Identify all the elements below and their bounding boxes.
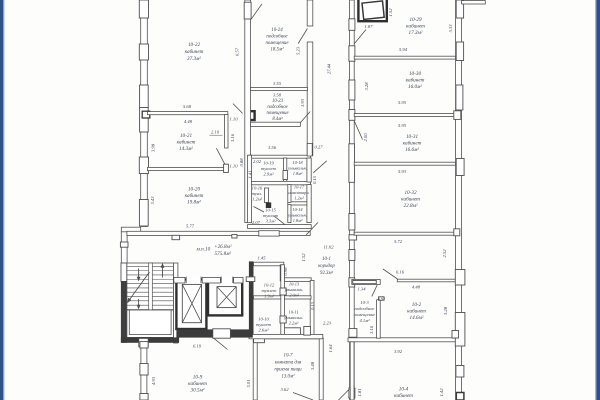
svg-text:кабинет: кабинет (185, 192, 204, 199)
wall 10-22 east (245, 0, 251, 223)
svg-text:кабинет: кабинет (406, 23, 425, 30)
wall stair east (174, 263, 178, 343)
svg-text:3.48: 3.48 (310, 361, 315, 370)
dim 5.94 (399, 47, 408, 52)
room label 10-13 (284, 282, 304, 298)
svg-text:27.44: 27.44 (327, 63, 332, 74)
svg-text:4.48: 4.48 (184, 119, 193, 124)
dim 1.64 (328, 344, 333, 353)
door gap 10-31 (349, 110, 355, 121)
door gap corridor east 2 (349, 250, 355, 261)
wall divider end cap vertical (225, 115, 228, 149)
svg-text:10-1: 10-1 (322, 257, 331, 262)
wall 10-24 east lower (307, 42, 313, 156)
svg-text:2.0м²: 2.0м² (289, 293, 299, 298)
door gap 10-4 (349, 388, 355, 398)
room below stairs (127, 310, 174, 337)
svg-text:10-23: 10-23 (272, 99, 284, 104)
svg-text:30.5м²: 30.5м² (191, 388, 205, 394)
svg-text:1.10: 1.10 (229, 164, 238, 169)
shaft wall cap mid (202, 277, 220, 283)
svg-text:0.15: 0.15 (312, 175, 317, 184)
svg-text:умывальн.: умывальн. (283, 315, 303, 320)
door gap 10-32 (349, 214, 355, 231)
window right 3 (456, 85, 463, 110)
dim 0.27 (314, 145, 323, 150)
room label 10-11 (283, 310, 303, 326)
niche corridor east (349, 144, 355, 183)
cap corridor east at 10-32 wall (349, 235, 357, 240)
dim 3.48 (310, 361, 315, 370)
wall divider 10-30/10-31 (354, 114, 456, 117)
window left lower 1 (140, 342, 148, 348)
dim 5.23 (296, 46, 301, 55)
svg-text:10-15: 10-15 (265, 208, 276, 213)
svg-text:3.98: 3.98 (151, 143, 156, 152)
svg-text:помещение: помещение (265, 41, 289, 46)
svg-text:комната для: комната для (275, 361, 302, 366)
svg-text:4.1м²: 4.1м² (359, 318, 370, 323)
door swing 10-23 (301, 112, 311, 123)
svg-text:приема пищи: приема пищи (274, 368, 302, 373)
svg-text:туал.: туал. (252, 191, 263, 196)
dim 2.02 (253, 159, 262, 164)
door gap 10-30 (349, 46, 355, 61)
pilaster notch A (172, 235, 180, 239)
svg-text:10-12: 10-12 (264, 283, 275, 288)
dim 6.57 (235, 47, 240, 56)
stair mid divider (149, 263, 153, 310)
wall left exterior upper (141, 0, 148, 227)
stair arrow down B (137, 299, 141, 310)
svg-text:16.6м²: 16.6м² (405, 147, 419, 153)
svg-text:помещение: помещение (266, 111, 288, 116)
wall 10-7 north (253, 335, 322, 339)
room label 10-20 (185, 187, 204, 206)
wall 10-2/10-3 south (348, 338, 456, 342)
svg-text:13.0м²: 13.0м² (281, 374, 295, 380)
right blue border line (595, 0, 600, 400)
stair arrow down A (137, 269, 141, 282)
room label 10-15 (263, 208, 279, 224)
wall jog left (121, 227, 140, 232)
room label 10-24 (265, 28, 289, 53)
svg-text:подсобное: подсобное (355, 306, 375, 311)
door swing 10-15 (274, 216, 285, 224)
wall 10-14 east (307, 185, 311, 223)
svg-text:3.43: 3.43 (150, 196, 155, 205)
door swing 10-20 (216, 148, 226, 166)
wall 10-12/10-13 divider vertical (281, 265, 285, 335)
wall 10-13 step vertical (280, 265, 284, 281)
door post 10-15 (266, 202, 271, 208)
svg-text:туалет: туалет (263, 213, 279, 218)
dim 5.95 a (398, 100, 407, 105)
window gap corridor east 1 (349, 80, 355, 100)
door gap corridor north (259, 231, 279, 236)
wall stub top right (462, 1, 486, 4)
svg-text:10-7: 10-7 (284, 354, 294, 359)
svg-text:0.98: 0.98 (283, 267, 288, 276)
svg-text:10-31: 10-31 (406, 134, 419, 140)
dim 3.58 (273, 93, 282, 98)
svg-text:0.15: 0.15 (310, 301, 315, 310)
dim 1.93 (300, 98, 305, 107)
svg-text:кабинет: кабинет (401, 196, 420, 203)
door swing 10-31 (355, 122, 363, 140)
room label 10-17 (288, 185, 309, 201)
room label 10-19 (261, 161, 277, 177)
svg-text:37.3м²: 37.3м² (187, 56, 201, 62)
svg-text:6.19: 6.19 (193, 344, 202, 349)
room label 10-10 (256, 317, 272, 333)
dim 0.15 b (310, 301, 315, 310)
cap divider 10-21/10-20 (224, 164, 229, 172)
dim 2.23 (323, 321, 332, 326)
pilaster notch B (232, 235, 237, 238)
wall 10-19/10-18 divider (284, 158, 287, 183)
stair steps (127, 266, 174, 309)
window right 1 (456, 0, 463, 18)
dim 4.48 b (412, 285, 421, 290)
wall stair west upper (121, 263, 127, 282)
room label 10-2 (407, 302, 426, 321)
svg-text:17.3м²: 17.3м² (409, 30, 423, 36)
svg-text:кабинет: кабинет (185, 48, 204, 55)
stairs outline (127, 263, 174, 310)
svg-text:10-30: 10-30 (409, 71, 422, 77)
window right 4 (456, 159, 464, 176)
svg-text:10-19: 10-19 (263, 161, 274, 166)
svg-text:1.16: 1.16 (369, 325, 374, 334)
wall stub 10-23 east (307, 144, 312, 157)
svg-text:5.94: 5.94 (399, 47, 408, 52)
elevator shaft 2 (208, 279, 242, 315)
room label 10-30 (406, 71, 425, 90)
svg-text:м.п.10: м.п.10 (196, 247, 211, 253)
svg-text:коридор: коридор (318, 264, 335, 269)
svg-text:2.07: 2.07 (252, 220, 261, 225)
shaft wall cap right (234, 277, 243, 283)
left blue border line (0, 0, 4, 400)
dim 27.44 (327, 63, 332, 74)
svg-text:2.10: 2.10 (211, 130, 220, 135)
svg-text:кабинет: кабинет (406, 77, 425, 84)
door swing 10-14 (306, 222, 318, 234)
elevator car tilted (362, 1, 384, 19)
room label 10-7 (274, 354, 302, 380)
elevator shaft 1 (176, 279, 206, 329)
svg-text:2.02: 2.02 (253, 159, 262, 164)
svg-text:1.81: 1.81 (357, 388, 362, 396)
stair arrow up (161, 263, 165, 278)
svg-text:10-10: 10-10 (258, 317, 269, 322)
door gap 10-29 (349, 19, 355, 31)
svg-text:0.88: 0.88 (239, 158, 244, 167)
dim 4.48 left (184, 119, 193, 124)
dim 1.52 shaft (388, 8, 393, 17)
svg-text:3.16: 3.16 (230, 133, 235, 142)
door gap 10-11 (280, 316, 286, 323)
svg-text:1.41: 1.41 (248, 170, 253, 178)
dim 0.15 a (312, 175, 317, 184)
room label 10-18 (287, 160, 307, 176)
svg-text:3.28: 3.28 (364, 82, 369, 91)
svg-text:подсобное: подсобное (267, 105, 287, 110)
pilaster right 1 (454, 111, 461, 120)
svg-text:3.28: 3.28 (443, 306, 448, 315)
svg-text:1.45: 1.45 (257, 256, 266, 261)
room label 10-23 (266, 99, 288, 122)
wall 10-12 north (254, 262, 284, 266)
svg-text:10-22: 10-22 (188, 42, 201, 48)
svg-text:1.10: 1.10 (229, 117, 238, 122)
dim 5.01 (246, 379, 251, 387)
svg-text:14.6м²: 14.6м² (410, 314, 424, 321)
junction box divider at left wall (246, 111, 255, 120)
dim 3.28 a (364, 82, 369, 91)
window left 3 (140, 85, 149, 108)
dim 0.92 (378, 297, 385, 302)
wall divider 10-22/10-21 (148, 112, 228, 115)
nib 10-11 east (304, 327, 311, 336)
door bar 10-9/10-7 (254, 338, 265, 342)
svg-text:22.8м²: 22.8м² (404, 203, 418, 209)
svg-text:кабинет: кабинет (188, 380, 207, 387)
nib right wall above 10-4 wall (452, 331, 459, 339)
door swing 10-29 (355, 30, 367, 44)
svg-text:10-4: 10-4 (399, 386, 409, 393)
dim 2.10 (210, 130, 223, 136)
room label 10-21 (177, 133, 196, 152)
wall 10-12/10-10 divider (254, 296, 312, 299)
svg-text:3.55: 3.55 (273, 81, 282, 86)
wall 10-3 north (352, 279, 380, 284)
dim 5.93 (398, 169, 407, 174)
wall corridor west (121, 232, 127, 263)
wall 10-7 east (319, 338, 323, 400)
dim 1.34 (357, 287, 366, 292)
stair arrow diagonal (127, 272, 149, 303)
svg-text:умывальн.: умывальн. (287, 213, 307, 218)
pilaster below stair-room (139, 338, 148, 346)
wall corridor north (127, 231, 310, 235)
svg-text:5.01: 5.01 (246, 379, 251, 387)
svg-text:2.23: 2.23 (323, 321, 332, 326)
svg-text:1.8м²: 1.8м² (293, 218, 303, 223)
wall divider 10-21/10-20 (148, 167, 225, 170)
svg-text:3.3м²: 3.3м² (265, 219, 276, 224)
wall right exterior (456, 0, 462, 400)
shaft door gap 1 (186, 277, 201, 283)
svg-text:10-21: 10-21 (180, 133, 193, 139)
dim 1.45 (257, 256, 266, 261)
junction square divider at left wall (142, 111, 150, 118)
wall 10-32 south (354, 232, 456, 235)
svg-text:0.92: 0.92 (378, 297, 385, 302)
svg-text:10-17: 10-17 (294, 185, 305, 190)
door gap shaft south (213, 329, 231, 338)
svg-text:1.87: 1.87 (364, 24, 373, 29)
window left 1 (139, 0, 148, 18)
svg-text:10-29: 10-29 (409, 17, 422, 23)
svg-text:инвентарн.: инвентарн. (288, 190, 309, 195)
thick wall top cap (246, 277, 255, 282)
room label 10-22 (185, 42, 204, 62)
wall divider 10-24/10-23 (251, 87, 308, 90)
wall shaft block south (176, 329, 252, 337)
dim 1.42 (439, 388, 444, 397)
svg-text:5.95: 5.95 (398, 100, 407, 105)
wall sanitary east (307, 158, 311, 182)
dim 5.77 (186, 223, 195, 228)
svg-text:5.23: 5.23 (296, 46, 301, 55)
svg-text:кабинет: кабинет (403, 140, 422, 147)
wall lower-block west thick (249, 261, 254, 338)
svg-text:92.3м²: 92.3м² (320, 270, 333, 276)
dim 1.52 b (301, 253, 306, 262)
svg-text:10-9: 10-9 (193, 375, 203, 381)
wall stair west lower dark (121, 281, 127, 343)
svg-text:туалет: туалет (261, 166, 277, 171)
dim 1.41 (248, 170, 253, 178)
elevator car 1 (182, 284, 201, 322)
svg-text:1.2м²: 1.2м² (294, 196, 304, 201)
svg-text:3.33: 3.33 (448, 24, 453, 33)
svg-text:умывальн.: умывальн. (287, 166, 307, 171)
svg-text:1.52: 1.52 (388, 8, 393, 17)
svg-text:10-16: 10-16 (252, 186, 263, 191)
svg-text:5.95: 5.95 (398, 123, 407, 128)
svg-text:8.4м²: 8.4м² (272, 116, 283, 122)
room label 10-1 corridor (318, 257, 335, 276)
dim 11.02 (324, 245, 335, 250)
room label 10-3 (354, 300, 376, 323)
dim 5.72 (394, 239, 403, 244)
door swing 10-22 top (251, 4, 262, 19)
door bar 10-7 north (282, 328, 301, 335)
wall sanitary south (248, 225, 312, 229)
dim 3.33 (448, 24, 453, 33)
wall 10-2 north (397, 279, 455, 282)
wall lower-block east (310, 280, 314, 337)
dim 5.95 b (398, 123, 407, 128)
door swing 10-7 south (293, 393, 313, 400)
label corridor mp10 (196, 244, 232, 257)
svg-text:575.8м²: 575.8м² (215, 251, 232, 257)
dim 3.62 (280, 387, 289, 392)
door swing 10-18 (313, 161, 327, 173)
wall 10-24 east upper (307, 0, 313, 26)
svg-text:1.2м²: 1.2м² (252, 197, 263, 202)
dim 2.52 (442, 249, 447, 258)
wall stair-room south thick (121, 337, 179, 342)
door swing 10-9 (214, 338, 228, 349)
svg-text:1.42: 1.42 (439, 388, 444, 397)
svg-text:10-24: 10-24 (271, 28, 283, 33)
svg-text:1.34: 1.34 (357, 287, 366, 292)
svg-text:2.52: 2.52 (442, 249, 447, 258)
svg-text:2.2м²: 2.2м² (289, 321, 299, 326)
svg-text:помещение: помещение (354, 312, 376, 317)
dim 2.00 (363, 133, 368, 142)
room label 10-14 (287, 207, 307, 223)
dim 6.19 (193, 344, 202, 349)
elevator car 2 (217, 287, 236, 308)
pilaster right 2 (454, 229, 460, 236)
wall 10-16 east (264, 188, 268, 203)
door bar 10-3 north (353, 281, 377, 284)
room label 10-32 (401, 190, 420, 209)
svg-text:10-11: 10-11 (289, 310, 299, 315)
wall 10-4 west (350, 342, 354, 400)
window corridor west (120, 242, 128, 247)
window left 5 (139, 200, 148, 227)
dim 3.43 (150, 196, 155, 205)
wall sanitary west (248, 155, 252, 223)
svg-text:0.27: 0.27 (314, 145, 323, 150)
svg-text:1.8м²: 1.8м² (293, 171, 303, 176)
dim 2.07 (252, 220, 261, 225)
dim 1.16 (369, 325, 374, 334)
svg-text:10-20: 10-20 (188, 187, 201, 193)
window right 2 (456, 42, 463, 61)
wall divider 10-31/10-32 (354, 162, 456, 165)
svg-text:3.92: 3.92 (394, 349, 403, 354)
svg-text:кабинет: кабинет (177, 139, 196, 146)
svg-text:туалет: туалет (256, 322, 272, 327)
fire elevator shaft (358, 0, 386, 21)
room label 10-16 (252, 186, 263, 202)
window right 5 (455, 270, 465, 286)
svg-text:5.72: 5.72 (394, 239, 403, 244)
door swing 10-3 (372, 285, 377, 296)
door swing 10-16 (254, 207, 265, 213)
svg-text:5.68: 5.68 (183, 104, 192, 109)
window left 2 (139, 44, 148, 60)
wall 10-13 north (284, 278, 311, 282)
wall 10-23 south (251, 122, 301, 126)
svg-text:6.16: 6.16 (396, 270, 405, 275)
dim 3.55 (273, 81, 282, 86)
shaft wall cap left (174, 277, 185, 283)
dim 1.10 a (229, 117, 238, 122)
door gap 10-24 west top (244, 2, 251, 19)
window left 4 (139, 157, 148, 174)
svg-text:1.64: 1.64 (328, 344, 333, 353)
svg-text:умывальн.: умывальн. (284, 287, 304, 292)
shaft door gap 2 (221, 277, 233, 283)
room label 10-29 (406, 17, 425, 36)
wall sanitary mid horizontal (251, 181, 310, 184)
wall 10-7 west (253, 335, 257, 400)
door swing 10-21 (233, 104, 243, 114)
dim 3.16 (230, 133, 235, 142)
room label 10-4 (394, 386, 413, 400)
svg-text:10-2: 10-2 (412, 302, 422, 308)
dim 3.28 b (443, 306, 448, 315)
pilaster left at divider 10-22/21 (140, 108, 149, 133)
wall 10-17 west (288, 185, 291, 203)
dim 0.98 (283, 267, 288, 276)
room label 10-9 (188, 375, 207, 394)
window left lower 3 (140, 394, 148, 400)
svg-text:2.00: 2.00 (363, 133, 368, 142)
svg-text:19.8м²: 19.8м² (187, 200, 201, 206)
dim 1.10 b (229, 164, 238, 169)
window right 8 (456, 393, 464, 400)
door swing 10-2 (383, 269, 398, 279)
